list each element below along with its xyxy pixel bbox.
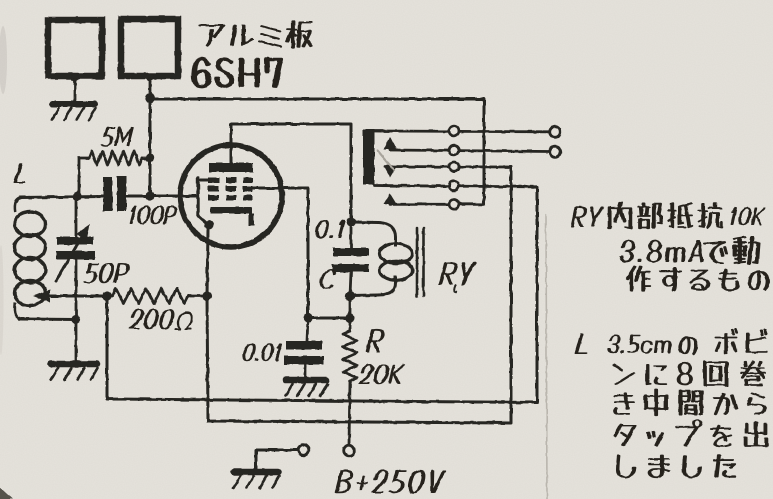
wire tap to 200ohm	[49, 295, 107, 298]
coil tap arrow	[33, 290, 50, 303]
label R	[366, 329, 387, 352]
resistor 200 ohm	[112, 289, 188, 304]
capacitor 0.01	[307, 318, 308, 341]
label 0.01	[241, 343, 258, 361]
capacitor 100P	[103, 177, 113, 211]
tube cathode	[210, 207, 252, 214]
ground bottom left	[234, 469, 279, 476]
wire bus A (tap to contact 4)	[107, 187, 537, 403]
wire plate1 to ground	[71, 73, 79, 81]
label 100P	[127, 206, 137, 224]
label B+250V	[334, 470, 355, 493]
label L	[13, 163, 31, 183]
resistor 5M	[79, 158, 89, 196]
coil L	[15, 198, 21, 213]
corner mark	[0, 487, 13, 499]
node tap/bus A	[102, 291, 111, 300]
node screen	[303, 313, 312, 322]
label C	[318, 269, 338, 289]
pencil mark	[378, 151, 394, 170]
antenna plate 1 (aluminum)	[48, 20, 102, 76]
wire plate2 down	[146, 73, 154, 81]
wire plate lead	[231, 124, 351, 220]
label 5M	[100, 127, 117, 147]
relay contact 2 (moving)	[384, 137, 397, 150]
node RY top	[346, 217, 356, 227]
wire cathode	[207, 230, 208, 296]
wire node A to 100P	[20, 197, 103, 198]
node coil bottom / 50P	[71, 315, 80, 324]
wire plates to grid node	[149, 98, 152, 196]
capacitor 0.1	[350, 222, 353, 248]
relay coil RY	[351, 221, 378, 225]
label aluminum plate	[198, 24, 225, 46]
smudges	[0, 26, 7, 94]
tube grid rail	[196, 178, 199, 216]
relay core bars	[416, 228, 419, 296]
wire coil bottom	[20, 318, 76, 322]
wire screen node	[308, 317, 350, 320]
relay contact 3 (moving)	[385, 165, 511, 168]
capacitor 50P (trimmer)	[57, 237, 93, 245]
resistor R 20K	[349, 318, 352, 331]
relay contact 1	[374, 130, 549, 134]
wire node A down through 50P	[75, 198, 78, 237]
tube plate	[209, 163, 253, 172]
relay armature bar	[363, 130, 375, 185]
relay contact 5 (moving)	[384, 194, 397, 205]
label 0.1	[314, 220, 331, 239]
wire bus B (cathode to contact 3)	[207, 167, 511, 423]
node RY bottom	[345, 291, 355, 301]
wire screen grid lead	[253, 188, 308, 318]
terminal B+	[344, 445, 355, 456]
antenna plate 2 (aluminum)	[121, 19, 178, 76]
note L	[574, 333, 592, 354]
label 6SH7	[192, 58, 211, 88]
note RY	[570, 206, 588, 227]
node A (L top / 100P left / 5M left)	[72, 192, 81, 201]
ground under 0.01	[286, 377, 327, 384]
tube grids	[208, 178, 219, 184]
paper crease	[546, 215, 547, 499]
relay contact 4	[375, 186, 538, 187]
label 20K	[358, 364, 376, 384]
label 50P	[83, 263, 101, 283]
ground under plate 1	[52, 101, 95, 107]
vacuum tube 6SH7 V1	[180, 145, 282, 247]
wire terminal to ground	[256, 450, 297, 470]
wire RY bottom to R top	[349, 296, 352, 318]
wire top bus from plates to contact 5	[150, 99, 484, 204]
terminal ground	[298, 445, 309, 456]
node plate bus junction	[145, 93, 155, 103]
label RY	[439, 262, 460, 285]
node cathode	[202, 291, 211, 300]
label 200 ohm	[128, 309, 146, 329]
ground under coil	[51, 361, 97, 368]
